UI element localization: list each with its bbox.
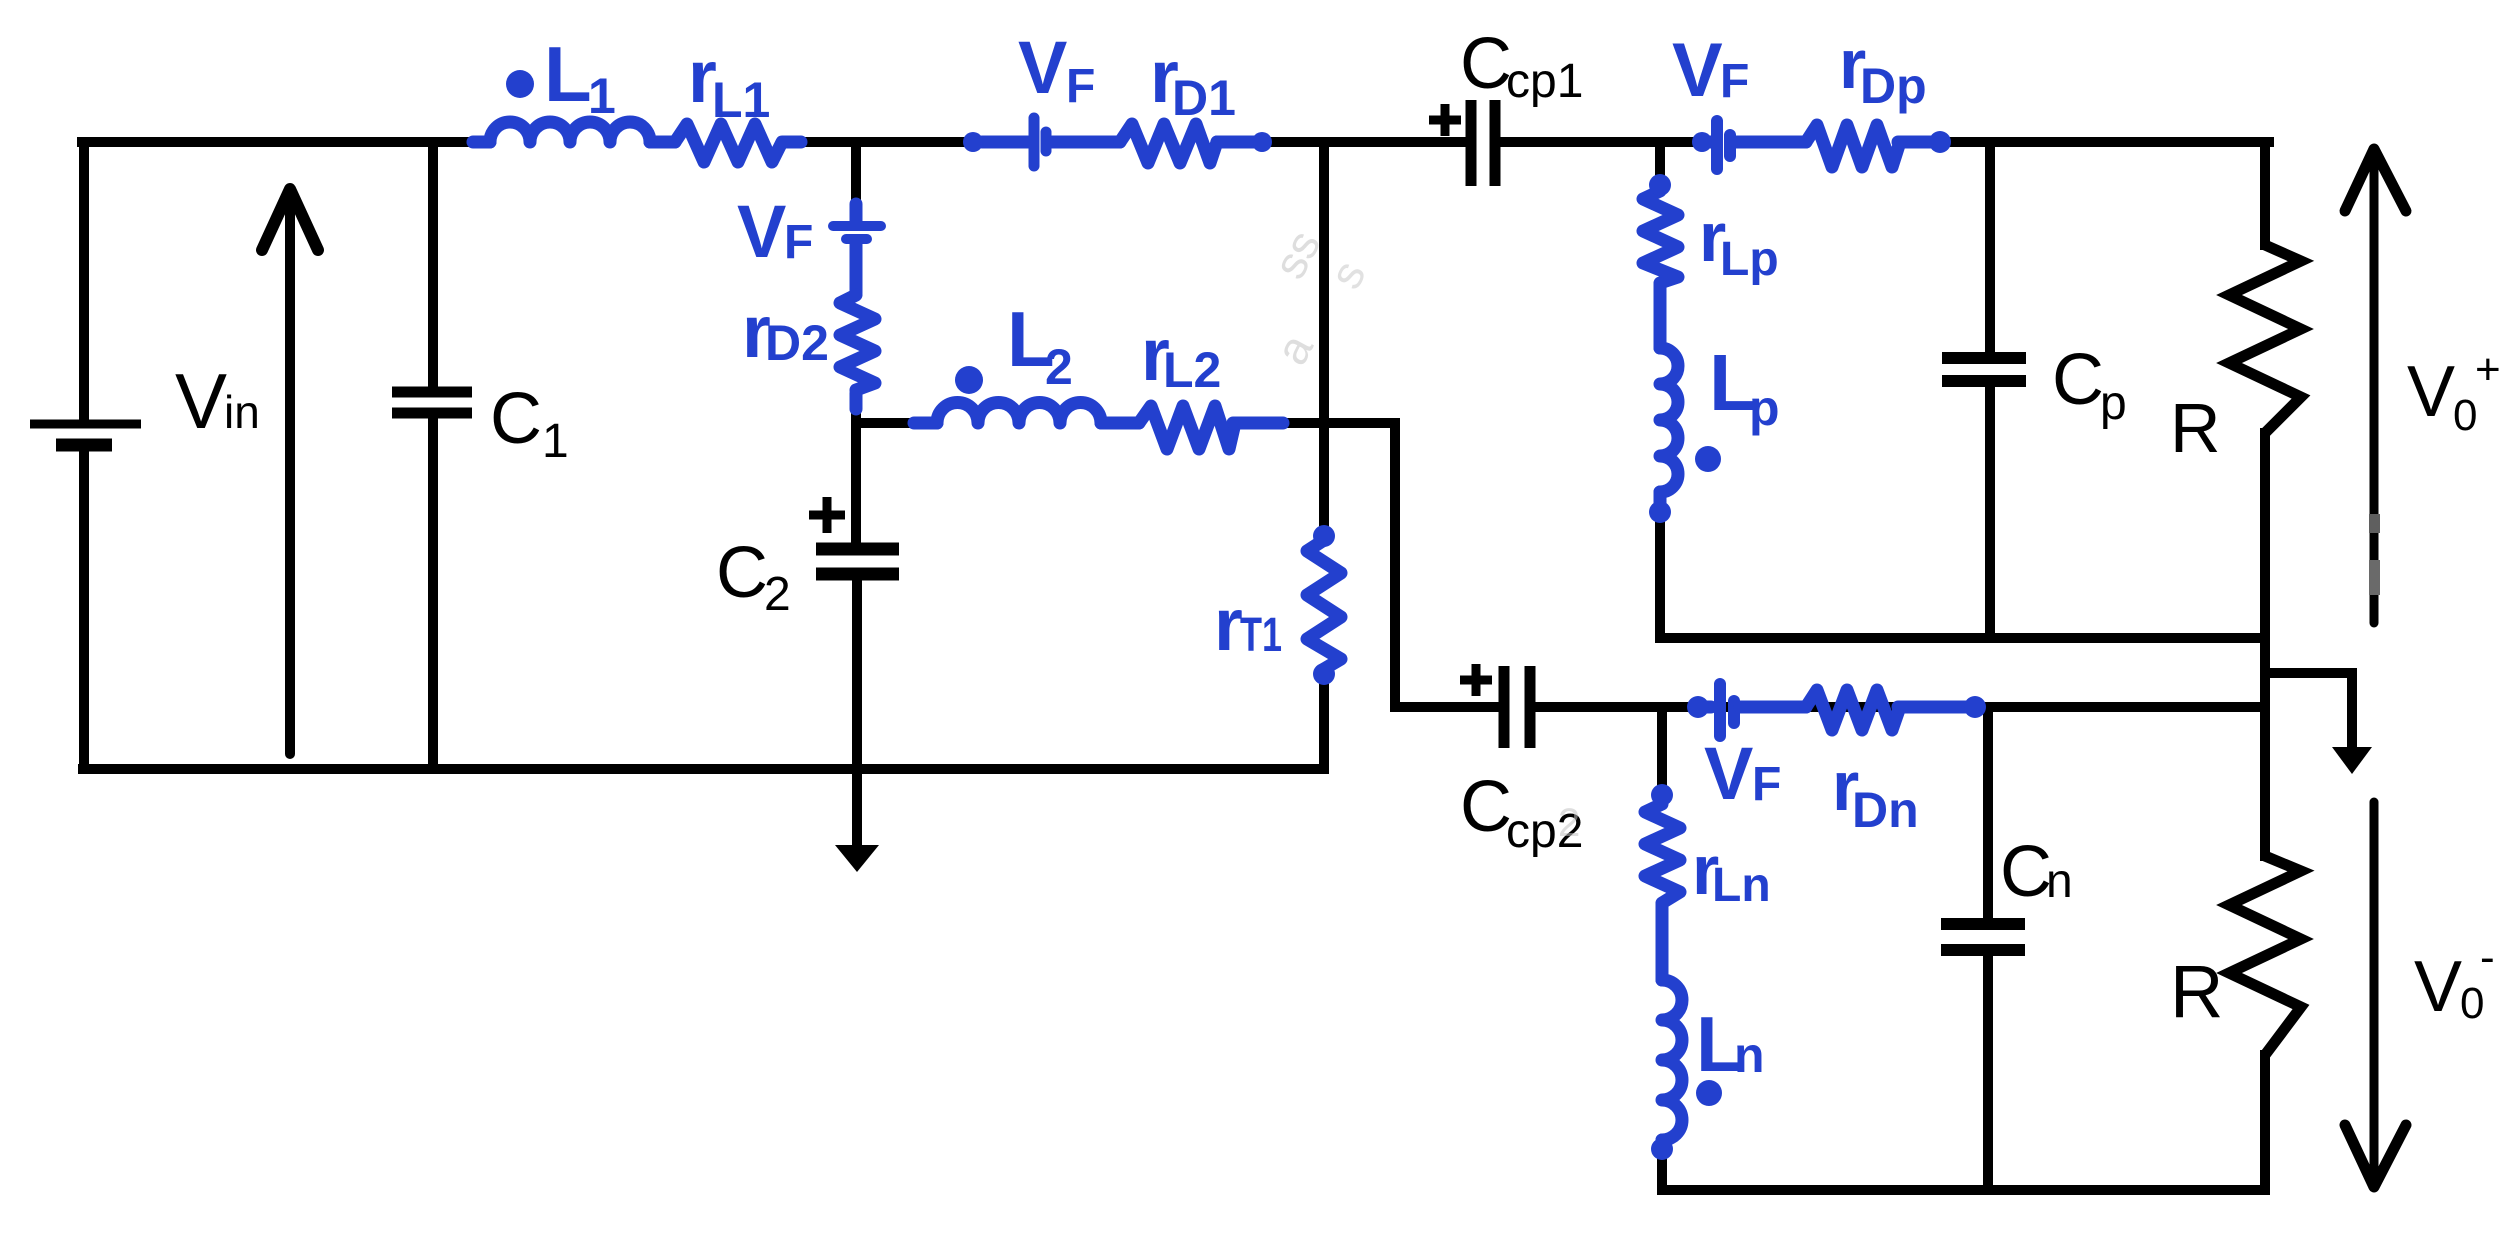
svg-text:R: R: [2170, 950, 2223, 1033]
svg-text:T1: T1: [1240, 609, 1282, 662]
svg-text:0: 0: [2460, 979, 2484, 1028]
svg-text:F: F: [1720, 55, 1749, 108]
svg-text:-: -: [2480, 933, 2495, 982]
svg-text:C: C: [2000, 832, 2052, 912]
svg-text:F: F: [1752, 758, 1781, 811]
svg-text:L1: L1: [712, 72, 770, 128]
svg-text:+: +: [2475, 345, 2501, 394]
svg-text:n: n: [2046, 855, 2073, 908]
svg-text:C: C: [1460, 24, 1512, 104]
svg-text:1: 1: [588, 68, 616, 124]
svg-text:2: 2: [764, 568, 791, 621]
svg-text:2: 2: [1558, 801, 1580, 845]
svg-text:r: r: [1214, 583, 1243, 666]
svg-text:V: V: [2407, 352, 2455, 432]
svg-text:p: p: [2100, 377, 2127, 430]
svg-text:a: a: [1265, 325, 1323, 372]
svg-text:0: 0: [2453, 391, 2477, 440]
svg-text:C: C: [1460, 767, 1512, 847]
svg-text:2: 2: [1045, 339, 1073, 395]
svg-text:Ln: Ln: [1712, 859, 1771, 912]
svg-text:F: F: [784, 216, 813, 269]
svg-text:L: L: [544, 30, 592, 118]
svg-text:cp1: cp1: [1506, 55, 1583, 108]
svg-text:V: V: [1704, 732, 1753, 815]
svg-text:V: V: [737, 190, 786, 273]
svg-text:V: V: [1672, 28, 1723, 113]
svg-text:in: in: [224, 386, 260, 438]
svg-text:Lp: Lp: [1720, 233, 1779, 286]
svg-text:V: V: [1018, 26, 1067, 109]
svg-text:C: C: [716, 533, 768, 613]
svg-text:V: V: [175, 357, 227, 445]
svg-text:C: C: [2052, 340, 2104, 420]
svg-text:Dp: Dp: [1860, 58, 1927, 114]
svg-text:C: C: [490, 379, 542, 459]
svg-text:V: V: [2414, 947, 2462, 1027]
svg-text:Dn: Dn: [1852, 782, 1919, 838]
svg-text:L2: L2: [1163, 342, 1221, 398]
svg-text:F: F: [1066, 60, 1095, 113]
svg-text:D1: D1: [1172, 70, 1236, 126]
svg-text:R: R: [2170, 389, 2221, 467]
svg-text:D2: D2: [765, 315, 829, 371]
svg-text:1: 1: [542, 415, 569, 468]
svg-text:n: n: [1734, 1027, 1765, 1083]
svg-text:p: p: [1749, 380, 1780, 436]
